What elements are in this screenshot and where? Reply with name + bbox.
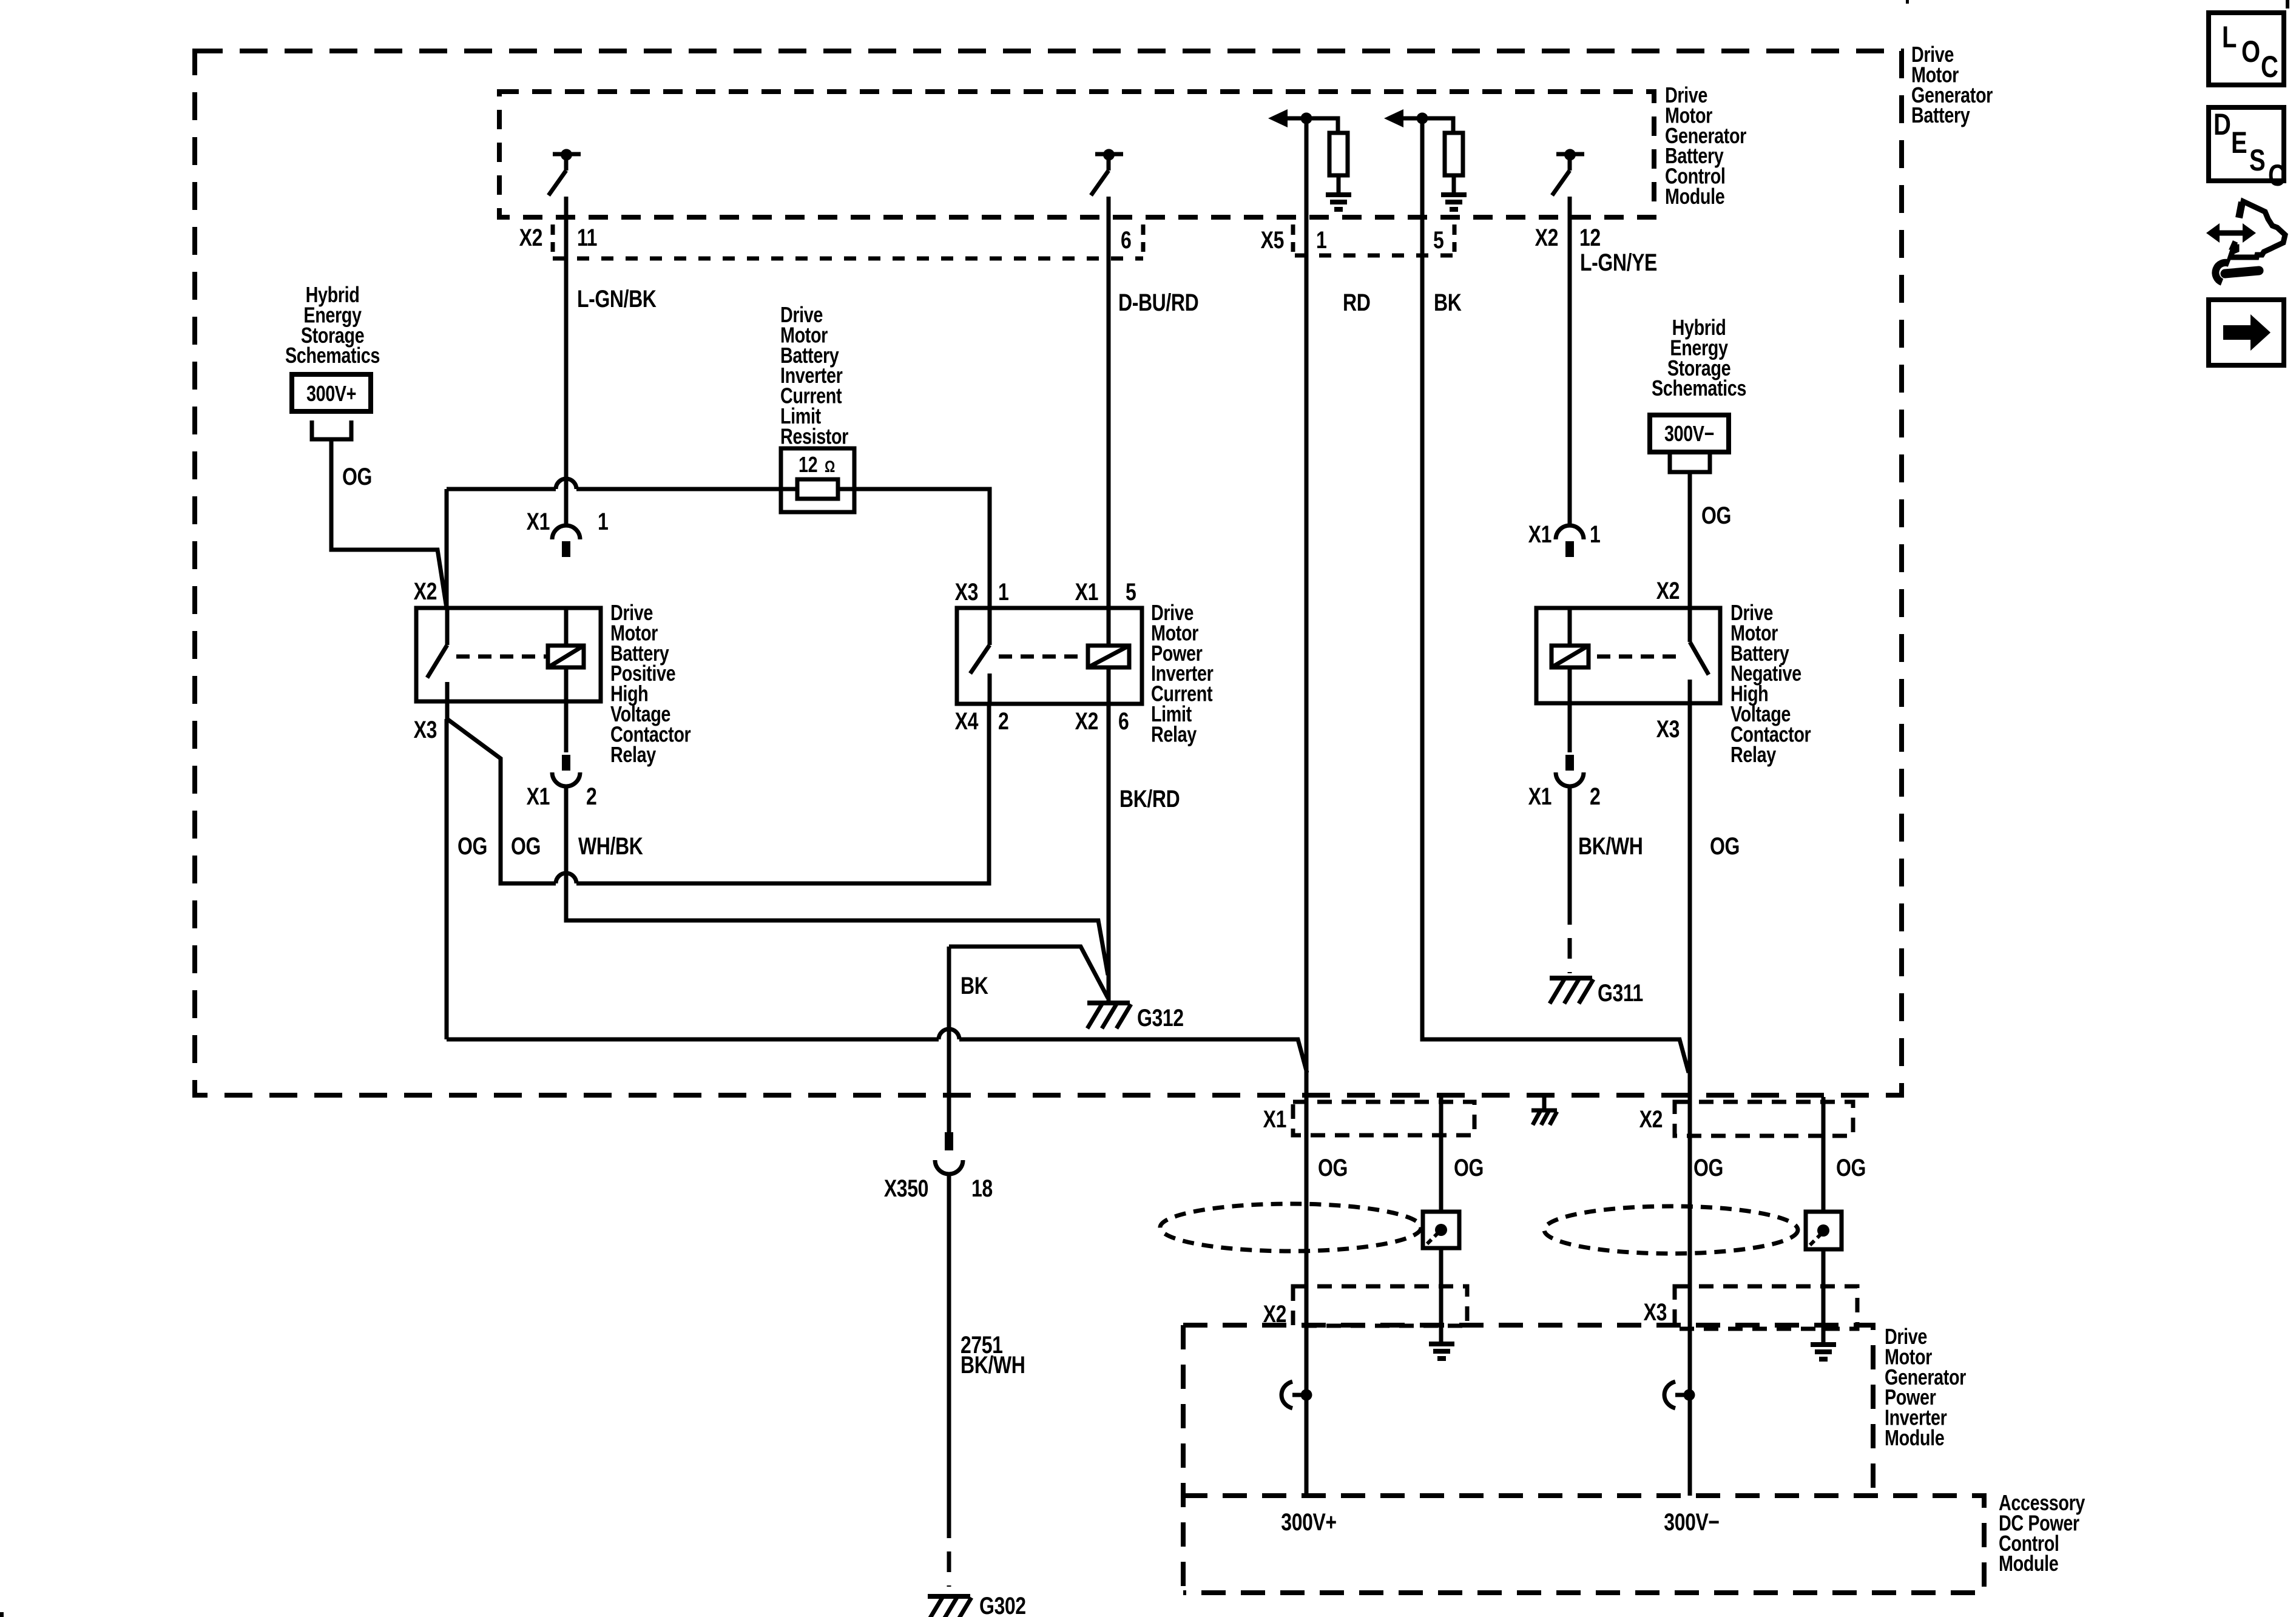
- svg-text:X1: X1: [1528, 521, 1552, 548]
- connector tick at X2/11: [551, 224, 555, 252]
- svg-text:Relay: Relay: [1151, 721, 1197, 746]
- switch S3 in control module (L-GN/YE feed): [1556, 152, 1584, 157]
- inline tap switch on 300V- wire: [1664, 1382, 1675, 1408]
- inline tap switch on 300V+ wire: [1281, 1382, 1292, 1408]
- page artifact marks top-right: [1906, 0, 1909, 4]
- svg-text:BK: BK: [1434, 289, 1462, 316]
- svg-text:X350: X350: [884, 1175, 928, 1202]
- bracket below 300V+ box: [312, 420, 351, 439]
- connector tick right of pin 6: [1141, 224, 1146, 252]
- connector X1 pin 1 of relay K1: [552, 525, 580, 539]
- svg-text:X1: X1: [1075, 578, 1099, 606]
- svg-text:Relay: Relay: [610, 742, 656, 767]
- wire OG from K1 X3 down to negative bus: [445, 719, 449, 1039]
- icon DESC box: [2209, 107, 2284, 181]
- svg-text:X1: X1: [1263, 1106, 1287, 1133]
- svg-text:X3: X3: [955, 578, 978, 606]
- wire L-GN/YE (S3 to connector X1:1 of relay K3): [1568, 197, 1572, 525]
- svg-text:X1: X1: [527, 783, 550, 810]
- svg-text:G302: G302: [979, 1592, 1026, 1617]
- relay K2 box (Drive Motor Power Inverter Current Limit): [957, 608, 1142, 704]
- svg-text:L-GN/YE: L-GN/YE: [1580, 249, 1657, 276]
- svg-text:WH/BK: WH/BK: [578, 832, 643, 860]
- svg-text:300V+: 300V+: [306, 381, 356, 406]
- svg-text:18: 18: [971, 1175, 993, 1202]
- ground below left shield: [1429, 1342, 1454, 1346]
- svg-text:BK/WH: BK/WH: [1578, 832, 1643, 860]
- switch S1 in control module (L-GN/BK feed): [553, 152, 581, 157]
- svg-text:Module: Module: [1665, 184, 1724, 209]
- wire BK/WH (K3 X1:2 to ground G311): [1568, 786, 1572, 904]
- svg-text:O: O: [2241, 35, 2260, 69]
- arrow node A2 (BK rail): [1384, 109, 1403, 127]
- dashed box: Accessory DC Power Control Module: [1183, 1496, 1984, 1593]
- wire BK branch to ground G312: [949, 947, 1108, 998]
- svg-text:11: 11: [577, 224, 597, 251]
- svg-text:1: 1: [598, 508, 609, 535]
- svg-text:X4: X4: [955, 707, 979, 735]
- 300V+ source box: [292, 374, 371, 411]
- relay K1 coil wires: [564, 608, 569, 646]
- svg-text:300V+: 300V+: [1281, 1508, 1336, 1536]
- svg-text:OG: OG: [1710, 832, 1740, 860]
- svg-text:X2: X2: [519, 224, 542, 251]
- svg-text:Relay: Relay: [1730, 742, 1776, 767]
- wire L-GN/BK (S1 to connector X1:1 of relay K1): [564, 197, 569, 525]
- resistor R3 element: [797, 479, 838, 499]
- svg-text:5: 5: [1433, 226, 1444, 254]
- svg-text:12: 12: [799, 452, 817, 477]
- svg-text:X1: X1: [527, 508, 550, 535]
- relay K3 coil: [1551, 646, 1589, 667]
- outer dashed box: Drive Motor Generator Battery: [195, 51, 1902, 1095]
- svg-text:OG: OG: [1836, 1154, 1866, 1181]
- ground G302: [928, 1594, 970, 1599]
- connector X1 pin 2 of relay K1: [562, 755, 570, 771]
- svg-text:1: 1: [1316, 226, 1327, 254]
- connector tick X5 left: [1291, 224, 1295, 252]
- relay K3 dashed actuator link: [1597, 655, 1681, 659]
- svg-text:OG: OG: [511, 832, 541, 860]
- ground below R1: [1326, 192, 1351, 197]
- connector X2 box (inverter module, right): [1675, 1102, 1853, 1136]
- relay K3 coil wires: [1568, 608, 1572, 646]
- svg-text:2: 2: [586, 783, 596, 810]
- icon vehicle outline with arrow and wrench: [2206, 223, 2220, 243]
- svg-text:6: 6: [1121, 226, 1131, 254]
- shield termination box (right): [1806, 1212, 1842, 1249]
- connector strip lower dotted edge (X2 pins 11/6): [553, 257, 1143, 261]
- ground below right shield: [1811, 1342, 1836, 1347]
- switch S2 in control module (D-BU/RD feed): [1095, 152, 1123, 157]
- svg-text:12: 12: [1579, 224, 1601, 251]
- svg-text:G311: G311: [1598, 979, 1643, 1007]
- svg-text:OG: OG: [1693, 1154, 1723, 1181]
- page artifact dot bottom-left: [0, 1612, 4, 1617]
- svg-text:S: S: [2249, 143, 2265, 177]
- relay K1 box (Drive Motor Battery Positive High Voltage Contactor): [416, 608, 601, 701]
- svg-text:X3: X3: [414, 716, 437, 743]
- relay K1 switch blade: [445, 608, 450, 645]
- arrow node A1 (RD rail): [1268, 109, 1288, 127]
- svg-text:OG: OG: [458, 832, 487, 860]
- svg-text:Module: Module: [1885, 1425, 1944, 1450]
- relay K3 switch blade: [1688, 608, 1692, 642]
- shield ellipse (right): [1544, 1206, 1798, 1254]
- connector tick X5 right: [1453, 224, 1457, 252]
- svg-text:X2: X2: [1656, 577, 1680, 604]
- svg-text:5: 5: [1126, 578, 1136, 606]
- relay K1 dashed actuator link: [456, 655, 547, 659]
- svg-text:D: D: [2213, 107, 2230, 141]
- svg-text:BK: BK: [961, 972, 988, 999]
- bracket below 300V- box: [1670, 453, 1710, 472]
- svg-text:C: C: [2261, 50, 2278, 84]
- relay K2 switch blade: [988, 608, 992, 645]
- svg-text:G312: G312: [1137, 1004, 1184, 1031]
- svg-text:OG: OG: [1701, 502, 1731, 529]
- svg-text:1: 1: [998, 578, 1009, 606]
- svg-text:2: 2: [998, 707, 1008, 735]
- svg-text:Battery: Battery: [1911, 103, 1970, 127]
- connector X1 pin 2 of relay K3: [1565, 755, 1574, 771]
- svg-text:E: E: [2231, 126, 2247, 160]
- svg-text:Ω: Ω: [825, 458, 835, 476]
- svg-text:Schematics: Schematics: [1652, 376, 1746, 400]
- wire resistor R2 to ground: [1452, 175, 1456, 192]
- svg-text:6: 6: [1118, 707, 1129, 735]
- svg-text:RD: RD: [1343, 289, 1370, 316]
- svg-text:X2: X2: [1535, 224, 1558, 251]
- svg-text:X2: X2: [1075, 707, 1098, 735]
- inner dashed box: Drive Motor Generator Battery Control Module: [499, 92, 1654, 217]
- icon LOC box: [2209, 13, 2284, 85]
- wire OG shield drain (left): [1439, 1097, 1443, 1342]
- ground G312: [1087, 1001, 1130, 1005]
- connector X350 pin 18: [947, 947, 951, 1132]
- relay K3 box (Drive Motor Battery Negative High Voltage Contactor): [1536, 608, 1720, 703]
- resistor R3 12 ohm outer box: [781, 448, 854, 512]
- svg-text:X2: X2: [414, 578, 437, 605]
- wire top bus right of R3 down to relay K2 X3:1: [839, 489, 990, 608]
- icon next-page arrow box: [2209, 300, 2284, 365]
- wire D-BU/RD (S2 to relay K2 X1:5): [1107, 197, 1111, 608]
- wire OG from 300V- to relay K3 pin X2: [1688, 472, 1692, 608]
- shield ellipse (left): [1160, 1204, 1421, 1251]
- connector X1 pin 1 of relay K3: [1556, 525, 1584, 539]
- wire OG from K1 X3 to relay K2 X4 (via bottom jog): [447, 719, 556, 883]
- resistor R1: [1329, 133, 1348, 175]
- wire OG shield drain (right): [1822, 1097, 1826, 1212]
- svg-text:OG: OG: [342, 463, 372, 490]
- wire top bus with jump over L-GN/BK: [447, 487, 556, 491]
- svg-text:300V−: 300V−: [1664, 1508, 1719, 1536]
- relay K2 dashed actuator link: [999, 655, 1087, 659]
- wire OG (K3 X3 down to 300V- output): [1688, 703, 1692, 1496]
- svg-text:D-BU/RD: D-BU/RD: [1118, 289, 1198, 316]
- shield termination box (left): [1423, 1212, 1459, 1248]
- connector X1 box (inverter module, left): [1293, 1102, 1474, 1135]
- resistor R2: [1445, 133, 1463, 175]
- wire BK (node A2 down and right to OG junction): [1422, 118, 1689, 1073]
- svg-text:OG: OG: [1318, 1154, 1348, 1181]
- svg-text:X3: X3: [1644, 1298, 1667, 1326]
- wire WH/BK (K1 X1:2 to ground G312): [566, 786, 1108, 975]
- relay K2 coil wires: [1107, 608, 1111, 646]
- wire from node A2 to resistor R2: [1428, 118, 1453, 133]
- relay K1 coil: [548, 646, 584, 667]
- svg-text:BK/RD: BK/RD: [1119, 785, 1180, 812]
- svg-text:1: 1: [1590, 521, 1601, 548]
- svg-text:X2: X2: [1639, 1106, 1663, 1133]
- svg-text:L-GN/BK: L-GN/BK: [577, 285, 657, 312]
- svg-text:OG: OG: [1454, 1154, 1484, 1181]
- connector X3 box (power inverter, right): [1675, 1286, 1857, 1329]
- wire negative bus with jump over BK branch: [447, 1038, 939, 1042]
- ground below R2: [1441, 192, 1467, 197]
- svg-text:Resistor: Resistor: [780, 424, 849, 448]
- wire OG from 300V+ to relay K1 pin X2: [331, 439, 447, 608]
- wire loop left edge (K1 X2 up to top bus): [445, 489, 449, 608]
- wire BK/RD (K2 X2:6 to ground G312): [1107, 704, 1111, 1001]
- wire RD (node A1 down through X5:1 to 300V+ output): [1305, 118, 1309, 1496]
- connector X2 box (power inverter, left): [1293, 1286, 1467, 1326]
- ground G311: [1550, 976, 1592, 981]
- connector strip lower dotted edge (X5): [1295, 254, 1454, 258]
- svg-text:C: C: [2268, 158, 2285, 192]
- wire 2751 BK/WH to G302: [947, 1174, 951, 1517]
- wire from node A1 to resistor R1: [1312, 118, 1338, 133]
- dashed box: Drive Motor Generator Power Inverter Module: [1183, 1325, 1873, 1496]
- relay K2 coil: [1088, 646, 1129, 667]
- svg-text:L: L: [2222, 20, 2237, 54]
- svg-text:Schematics: Schematics: [285, 343, 380, 368]
- svg-text:X1: X1: [1528, 783, 1552, 810]
- chassis ground stub on battery box: [1542, 1096, 1547, 1109]
- svg-text:300V−: 300V−: [1664, 421, 1714, 446]
- wire resistor R1 to ground: [1337, 175, 1341, 192]
- svg-text:X3: X3: [1656, 715, 1680, 743]
- svg-text:BK/WH: BK/WH: [961, 1351, 1025, 1379]
- svg-text:X5: X5: [1261, 226, 1285, 254]
- svg-text:2: 2: [1590, 783, 1600, 810]
- 300V- source box: [1650, 415, 1729, 452]
- svg-text:Module: Module: [1999, 1551, 2058, 1576]
